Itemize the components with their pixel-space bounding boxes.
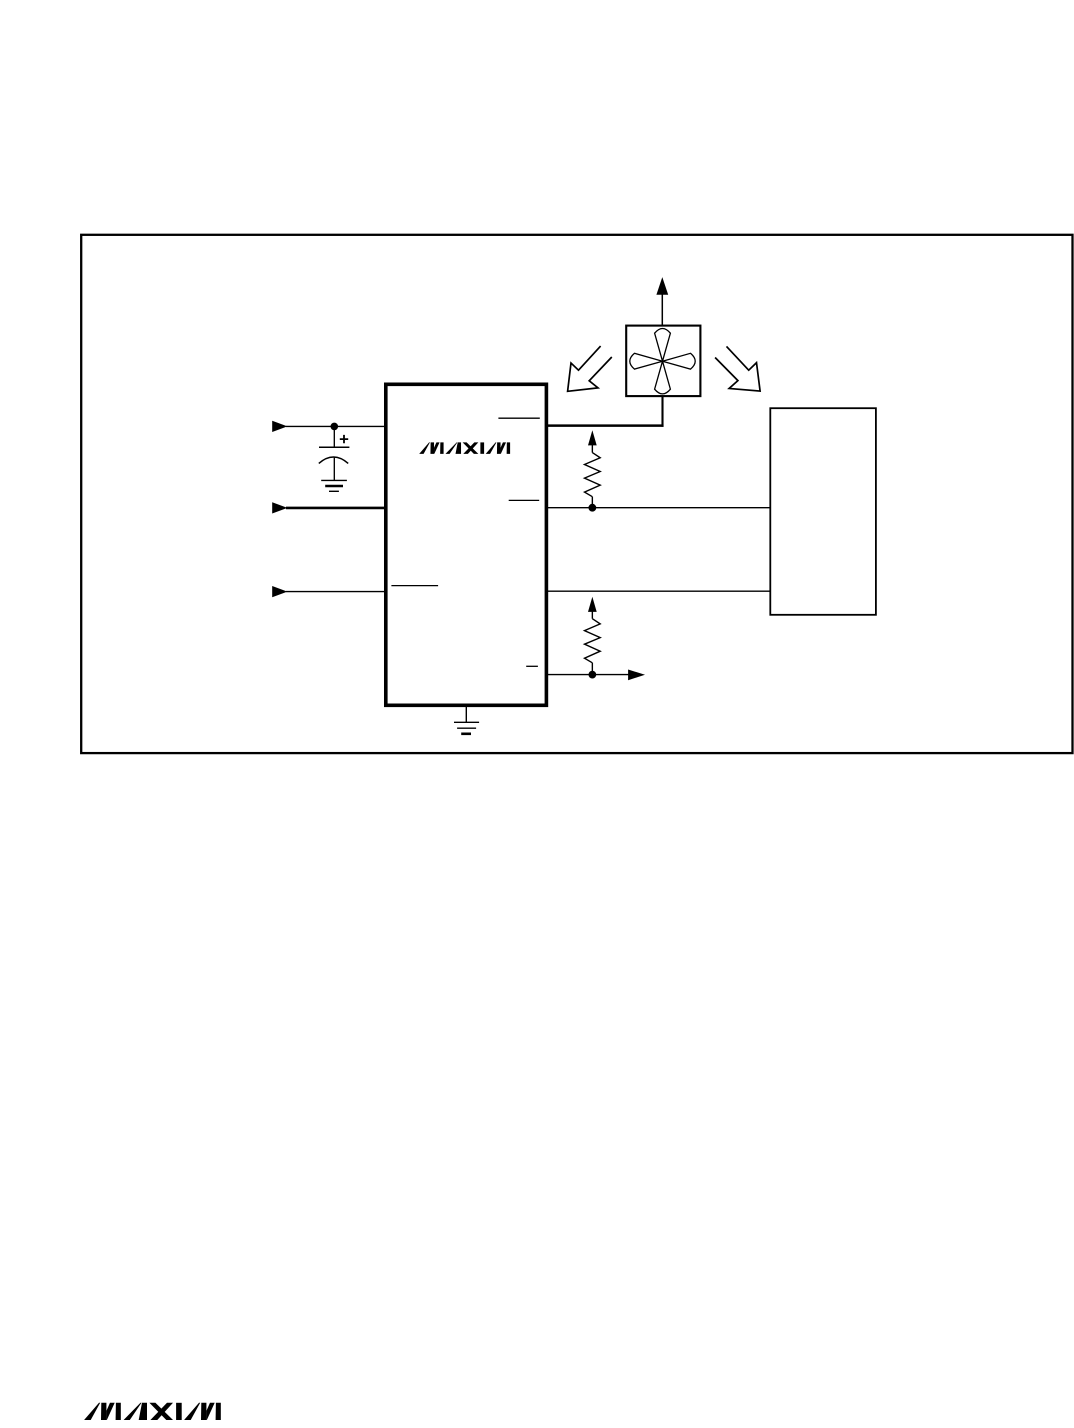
- node junction R2 / bottom wire: [588, 671, 596, 679]
- capacitor C1 (polarized) top plate: [319, 446, 349, 448]
- resistor R2 lower stem: [591, 663, 593, 675]
- open airflow arrow (left of fan): [568, 346, 612, 391]
- IC U1 (MAX fan controller) block: [386, 384, 547, 705]
- wire input 3 to U1: [286, 591, 386, 593]
- pin overbar (top right pin of U1): [498, 417, 539, 419]
- figure border frame: [81, 235, 1072, 753]
- wire input 2 to U1 (bold): [286, 507, 386, 510]
- open airflow arrow (right of fan): [715, 346, 760, 391]
- fan blade left: [630, 353, 663, 369]
- node junction R1 / mid wire: [588, 504, 596, 512]
- fan blade right: [663, 353, 696, 369]
- wire capacitor to ground: [333, 457, 335, 480]
- capacitor C1 plus sign: [340, 435, 348, 443]
- input arrow 3 (lower left): [272, 586, 287, 597]
- resistor R1 lower stem: [591, 497, 593, 508]
- wire U1 mid-right pin to load block: [547, 507, 771, 509]
- pin overbar (bottom right pin of U1): [526, 665, 538, 667]
- resistor R2 zigzag: [585, 619, 601, 663]
- resistor R2 arrow head: [588, 597, 597, 612]
- wire U1 top-right pin to fan (bold): [547, 424, 664, 427]
- resistor R1 zigzag: [585, 453, 601, 497]
- MAXIM logo (page footer): [84, 1403, 221, 1420]
- resistor R1 arrow stem: [591, 444, 593, 452]
- ground (U1): [454, 722, 479, 734]
- MAXIM logo inside IC U1: [419, 442, 510, 453]
- pin overbar (mid right pin of U1): [509, 499, 540, 501]
- wire U1 bottom-right pin to output arrow: [547, 674, 630, 676]
- wire U1 bottom pin to ground: [465, 705, 467, 722]
- output arrowhead (right): [628, 670, 645, 681]
- resistor R2 arrow stem: [591, 611, 593, 619]
- fan blade top: [655, 329, 671, 362]
- input arrow 2 (middle left): [272, 502, 287, 513]
- fan M1 frame: [626, 326, 700, 397]
- ground (capacitor C1): [321, 480, 347, 491]
- wire fan bottom drop: [661, 396, 663, 427]
- airflow arrowhead above fan: [656, 277, 668, 295]
- fan blade bottom: [655, 361, 671, 394]
- wire input 1 to U1: [286, 425, 386, 427]
- input arrow 1 (top left): [272, 421, 287, 432]
- load block (right): [770, 408, 876, 615]
- resistor R1 arrow head: [588, 430, 597, 445]
- wire U1 right pin to load block (row 2): [547, 590, 771, 592]
- capacitor C1 curved plate: [319, 457, 348, 463]
- node junction on input 1: [331, 423, 339, 431]
- pin overbar (left pin of U1): [391, 585, 438, 587]
- wire junction to capacitor: [333, 426, 335, 447]
- airflow arrow above fan (wire): [661, 294, 663, 326]
